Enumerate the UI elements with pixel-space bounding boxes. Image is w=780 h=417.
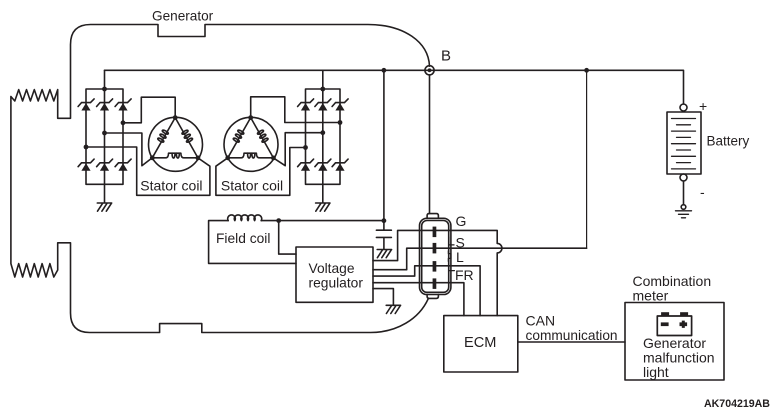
generator malfunction light icon (battery warning) xyxy=(657,312,691,335)
junction bridge2 right tap xyxy=(338,120,343,125)
diode bridge2 bottom-center xyxy=(315,159,331,171)
junction bridge2 center tap xyxy=(320,130,325,135)
wire regulator to pin FR and down to ECM xyxy=(373,283,464,316)
svg-text:Stator coil: Stator coil xyxy=(140,178,202,194)
svg-text:regulator: regulator xyxy=(309,275,364,290)
ground bridge1 xyxy=(97,203,111,211)
wire regulator to pin G and down to ECM with hop xyxy=(373,230,502,315)
diode bridge1 top-center xyxy=(97,99,113,111)
connector body xyxy=(420,214,451,299)
svg-text:communication: communication xyxy=(526,328,618,343)
svg-text:+: + xyxy=(699,98,707,114)
diode bridge1 top-left xyxy=(78,99,94,111)
diode bridge2 bottom-right xyxy=(332,159,348,171)
earth ground battery xyxy=(676,205,692,218)
svg-text:B: B xyxy=(441,48,451,65)
connector pin S xyxy=(433,243,437,254)
junction bridge2 left tap xyxy=(303,145,308,150)
junction bridge1 center tap xyxy=(102,131,107,136)
wire B to connector xyxy=(429,75,431,214)
generator housing outline xyxy=(11,25,430,333)
terminal hook S xyxy=(449,237,454,245)
wire battery to earth ground xyxy=(683,181,685,205)
wire bridge1 left column to stator1 bottom-right vertex (around label) xyxy=(86,147,210,195)
svg-text:light: light xyxy=(643,364,669,380)
wire field node to rail node xyxy=(279,220,384,222)
ground capacitor xyxy=(377,250,391,258)
diode bridge2 bottom-left xyxy=(298,159,314,171)
wire B+ rail xyxy=(105,70,684,104)
label Combination meter xyxy=(633,273,712,304)
wire regulator to pin S and battery sense xyxy=(373,248,587,270)
junction bridge1 top xyxy=(102,87,107,92)
wire regulator to pin L and down to ECM xyxy=(373,266,480,316)
wire field node down to regulator xyxy=(279,221,296,255)
junction field node xyxy=(276,218,281,223)
junction capacitor node xyxy=(382,218,387,223)
svg-text:FR: FR xyxy=(455,267,474,283)
ground bridge2 xyxy=(316,203,330,211)
label CAN communication xyxy=(526,313,618,343)
field coil F with inductor xyxy=(209,215,296,263)
diode bridge1 bottom-left xyxy=(78,159,94,171)
stator coil 1 delta winding xyxy=(149,115,203,171)
svg-text:AK704219AB: AK704219AB xyxy=(704,398,770,410)
svg-text:-: - xyxy=(700,184,705,200)
junction rail to S sense wire xyxy=(584,68,589,73)
wire bridge2 center column to stator2 bottom-right vertex xyxy=(273,133,322,166)
ECM box xyxy=(444,316,518,372)
junction rail to capacitor xyxy=(382,68,387,73)
svg-text:L: L xyxy=(456,249,464,265)
wire bridge1 center column to stator1 bottom-left vertex xyxy=(105,133,153,166)
terminal hook FR xyxy=(449,267,455,271)
svg-text:meter: meter xyxy=(633,288,669,304)
label Voltage regulator xyxy=(309,261,364,291)
svg-text:ECM: ECM xyxy=(464,335,496,351)
diode bridge1 bottom-right xyxy=(115,159,131,171)
battery symbol xyxy=(667,104,701,181)
diode bridge2 top-left xyxy=(298,99,314,111)
svg-text:Voltage: Voltage xyxy=(309,261,355,276)
combination meter box xyxy=(625,303,724,381)
connector pin FR xyxy=(433,278,437,289)
diode bridge1 top-right xyxy=(115,99,131,111)
diode bridge2 top-center xyxy=(315,99,331,111)
terminal hook L xyxy=(448,251,451,262)
connector pin L xyxy=(433,261,437,272)
node B terminal xyxy=(425,66,434,75)
wire bridge2 right column to stator2 top vertex xyxy=(251,97,340,123)
label Generator malfunction light xyxy=(643,335,715,380)
wire bridge2 left column to stator2 bottom-left vertex (around label) xyxy=(216,148,306,196)
junction bridge1 right tap xyxy=(121,120,126,125)
diode bridge2 top-right xyxy=(332,99,348,111)
rectifier bridge 1 frame xyxy=(86,70,123,202)
wire ECM to combination meter (CAN) xyxy=(518,341,625,343)
svg-text:Field coil: Field coil xyxy=(216,231,270,246)
stator coil 2 delta winding xyxy=(224,115,278,171)
voltage regulator U1 xyxy=(296,247,373,302)
wire regulator to ground xyxy=(373,289,393,305)
svg-text:Battery: Battery xyxy=(707,134,750,149)
connector pin G xyxy=(433,227,437,238)
junction bridge2 top xyxy=(320,87,325,92)
wire rail down to field coil node xyxy=(383,70,385,220)
svg-text:Generator: Generator xyxy=(152,9,214,24)
svg-text:CAN: CAN xyxy=(526,313,556,329)
ground regulator xyxy=(386,305,400,313)
svg-text:G: G xyxy=(456,213,467,229)
diode bridge1 bottom-center xyxy=(97,159,113,171)
junction bridge1 left tap xyxy=(84,145,89,150)
wire bridge1 right column to stator1 top vertex xyxy=(123,97,175,123)
wire S sense vertical xyxy=(586,70,588,248)
rectifier bridge 2 frame xyxy=(306,70,341,202)
capacitor C xyxy=(376,221,391,250)
svg-text:Stator coil: Stator coil xyxy=(221,178,283,194)
